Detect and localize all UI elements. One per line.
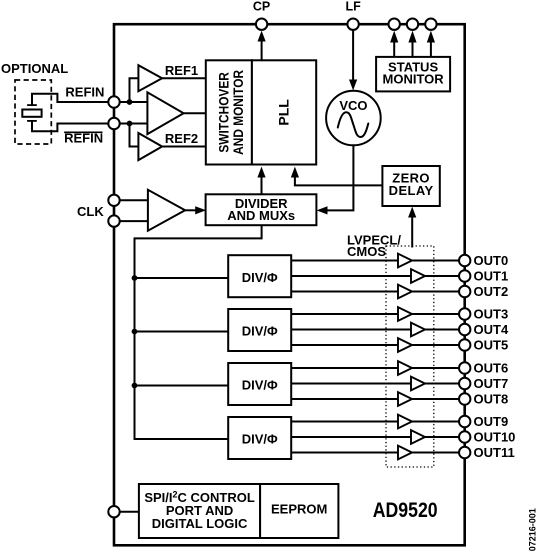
driver OUT5	[398, 338, 412, 352]
svg-text:OUT11: OUT11	[474, 445, 515, 460]
svg-text:07216-001: 07216-001	[527, 508, 537, 551]
wire driver to pin OUT4	[425, 329, 459, 331]
pin REFIN-bar	[108, 118, 119, 129]
buffer CLK	[148, 190, 185, 231]
wire CLK buffer to divider	[185, 206, 206, 214]
driver OUT11	[398, 446, 412, 460]
wire DIV to OUT1 driver	[291, 275, 411, 277]
crystal symbol	[22, 105, 41, 121]
driver OUT1	[411, 269, 425, 283]
SPI pin	[108, 506, 119, 517]
wire REF1 to switchover	[162, 77, 206, 79]
wire DIV to OUT4 driver	[291, 329, 411, 331]
svg-text:DIV/Φ: DIV/Φ	[242, 270, 278, 285]
wire driver to pin OUT10	[425, 436, 459, 438]
wire zero delay to PLL	[291, 167, 383, 186]
wire driver to pin OUT11	[412, 452, 459, 454]
wire DIV to OUT7 driver	[291, 383, 411, 385]
junction dot REFIN	[127, 99, 133, 105]
svg-text:OUT3: OUT3	[474, 307, 509, 322]
svg-text:OUT5: OUT5	[474, 338, 509, 353]
wire DIV to OUT3 driver	[291, 313, 398, 315]
svg-text:DIV/Φ: DIV/Φ	[242, 432, 278, 447]
wire driver to pin OUT8	[412, 398, 459, 400]
svg-text:DIGITAL LOGIC: DIGITAL LOGIC	[152, 516, 248, 531]
wire divider to PLL	[257, 167, 265, 195]
svg-text:OPTIONAL: OPTIONAL	[1, 61, 68, 76]
REFIN-bar label	[64, 131, 103, 146]
pin status2	[407, 19, 418, 30]
pin OUT9	[459, 416, 470, 427]
svg-text:CLK: CLK	[77, 204, 104, 219]
wire driver to pin OUT9	[412, 421, 459, 423]
ZERO DELAY box	[382, 166, 439, 206]
wire CLK n to buffer	[120, 220, 148, 222]
pin CLK n	[108, 215, 119, 226]
wire driver to pin OUT0	[412, 260, 459, 262]
buffer REF2	[138, 133, 162, 160]
wire DIV to OUT2 driver	[291, 291, 398, 293]
pin OUT6	[459, 362, 470, 373]
svg-text:CMOS: CMOS	[347, 244, 386, 259]
pin OUT10	[459, 431, 470, 442]
buffer REFIN differential	[147, 92, 183, 134]
wire VCO to divider	[317, 145, 354, 214]
chip boundary AD9520	[114, 24, 465, 545]
divider DIV2 box	[228, 309, 291, 351]
wire crystal to REFIN pin	[32, 94, 109, 105]
svg-text:DIV/Φ: DIV/Φ	[242, 324, 278, 339]
driver OUT8	[398, 392, 412, 406]
svg-text:DIV/Φ: DIV/Φ	[242, 378, 278, 393]
driver OUT0	[398, 254, 412, 268]
divider DIV3 box	[228, 363, 291, 405]
pin REFIN	[108, 96, 119, 107]
pin LF	[347, 19, 358, 30]
wire driver to pin OUT7	[425, 383, 459, 385]
optional dashed box	[15, 80, 51, 144]
svg-text:DELAY: DELAY	[389, 183, 434, 198]
svg-text:OUT0: OUT0	[474, 253, 509, 268]
pin OUT5	[459, 339, 470, 350]
divider DIV4 box	[228, 417, 291, 459]
pin OUT4	[459, 324, 470, 335]
wire DIV to OUT11 driver	[291, 452, 398, 454]
driver OUT10	[411, 430, 425, 444]
driver OUT2	[398, 285, 412, 299]
STATUS MONITOR box	[376, 57, 450, 92]
wire driver to pin OUT1	[425, 275, 459, 277]
pin CP	[256, 19, 267, 30]
driver OUT3	[398, 307, 412, 321]
wire REF2 to switchover	[162, 146, 206, 148]
junction dot DIV1	[132, 275, 138, 281]
wire DIV to OUT6 driver	[291, 367, 398, 369]
wire CP line to PLL	[258, 31, 266, 61]
VCO oscillator U2	[326, 91, 381, 146]
pin OUT2	[459, 286, 470, 297]
junction dot REFIN-bar	[127, 121, 133, 127]
svg-text:LF: LF	[345, 0, 361, 13]
divider DIV1 box	[228, 255, 291, 297]
wire feed to DIV3	[135, 385, 229, 387]
junction dot DIV2	[132, 329, 138, 335]
svg-text:REF1: REF1	[165, 63, 198, 78]
driver OUT4	[411, 323, 425, 337]
wire driver to pin OUT3	[412, 313, 459, 315]
output drivers dotted box	[386, 246, 434, 467]
wire driver to pin OUT6	[412, 367, 459, 369]
pin CLK p	[108, 195, 119, 206]
svg-text:AD9520: AD9520	[373, 500, 438, 523]
svg-text:OUT4: OUT4	[474, 322, 509, 337]
pin OUT11	[459, 447, 470, 458]
svg-text:REF2: REF2	[165, 131, 198, 146]
wire driver to pin OUT5	[412, 344, 459, 346]
buffer REF1	[138, 65, 162, 91]
wire LF line to VCO	[349, 31, 357, 91]
pin OUT3	[459, 308, 470, 319]
svg-text:MONITOR: MONITOR	[383, 72, 445, 87]
wire SPI pin to control box	[120, 511, 139, 513]
pin status1	[389, 19, 400, 30]
driver OUT9	[398, 415, 412, 429]
wire CLK p to buffer	[120, 199, 148, 201]
svg-text:VCO: VCO	[339, 98, 367, 113]
wire DIV to OUT0 driver	[291, 260, 398, 262]
svg-text:OUT9: OUT9	[474, 414, 509, 429]
wire feed to DIV1	[135, 277, 229, 279]
svg-text:OUT6: OUT6	[474, 361, 509, 376]
pin OUT0	[459, 255, 470, 266]
svg-text:OUT10: OUT10	[474, 430, 516, 445]
driver OUT6	[398, 361, 412, 375]
pin OUT1	[459, 270, 470, 281]
svg-text:AND MUXs: AND MUXs	[227, 208, 295, 223]
svg-text:REFIN: REFIN	[65, 85, 104, 100]
wire DIV to OUT5 driver	[291, 344, 398, 346]
SPI control box	[139, 484, 260, 538]
EEPROM box	[260, 484, 338, 538]
svg-text:OUT2: OUT2	[474, 284, 509, 299]
svg-text:CP: CP	[253, 0, 270, 13]
svg-text:EEPROM: EEPROM	[271, 502, 327, 517]
LVPECL/CMOS label	[347, 233, 401, 259]
svg-text:AND MONITOR: AND MONITOR	[230, 70, 246, 155]
wire big buffer to switchover	[184, 112, 206, 114]
wire feed to DIV2	[135, 331, 229, 333]
junction dot DIV3	[132, 383, 138, 389]
svg-text:PLL: PLL	[276, 99, 292, 126]
svg-text:OUT1: OUT1	[474, 269, 509, 284]
wire REFIN to big buffer	[120, 101, 148, 103]
wire divider to DIV feed bus	[135, 225, 262, 439]
wire DIV to OUT8 driver	[291, 398, 398, 400]
svg-text:OUT8: OUT8	[474, 392, 509, 407]
pin OUT7	[459, 378, 470, 389]
wire branch to REF1 buffer	[130, 78, 139, 102]
wire DIV to OUT9 driver	[291, 421, 398, 423]
svg-text:OUT7: OUT7	[474, 376, 509, 391]
wire REFIN-bar to big buffer	[120, 123, 148, 125]
SWITCHOVER AND MONITOR box U1	[206, 60, 252, 164]
DIVIDER AND MUXs box	[206, 194, 317, 225]
wire DIV to OUT10 driver	[291, 436, 411, 438]
driver OUT7	[411, 377, 425, 391]
wire crystal to REFIN-bar pin	[32, 121, 109, 131]
pin status3	[425, 19, 436, 30]
wire feedback to zero delay	[408, 207, 416, 248]
wire branch to REF2 buffer	[130, 124, 139, 147]
wire status monitor arrows	[390, 31, 435, 57]
pin OUT8	[459, 393, 470, 404]
PLL box	[252, 60, 316, 164]
wire driver to pin OUT2	[412, 291, 459, 293]
